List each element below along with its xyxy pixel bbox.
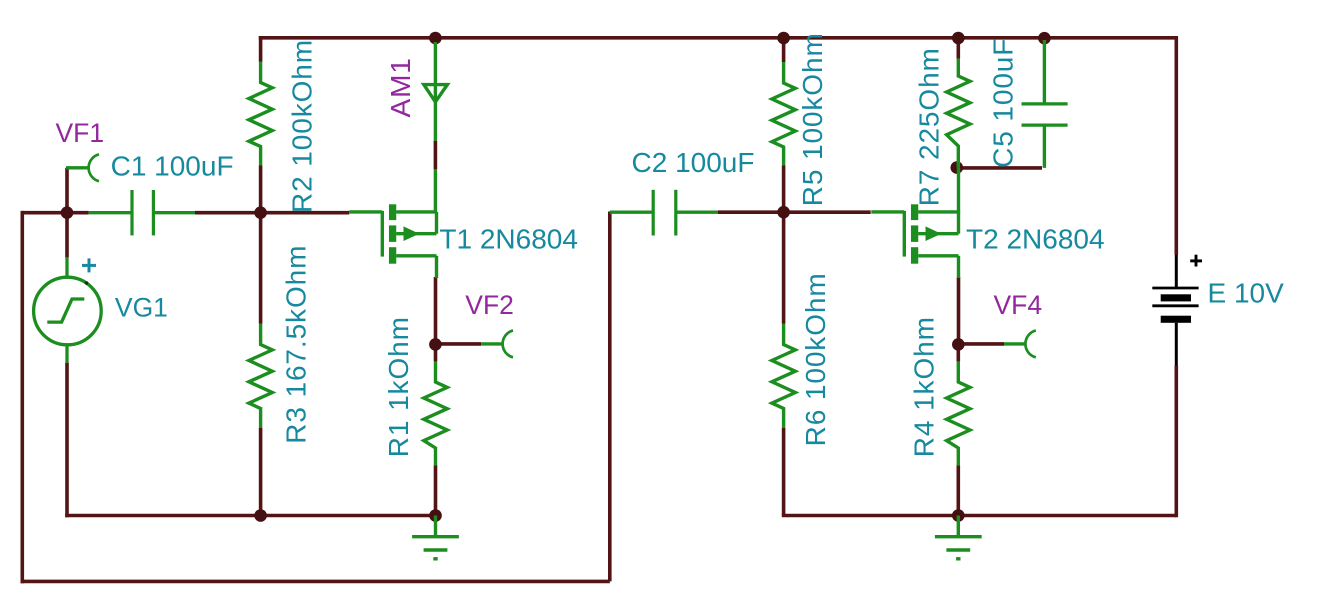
wire VF4 node to R4 top [956,344,960,361]
wire input node to C1 left [22,211,88,215]
wire T1 source to VF2 node [434,277,438,344]
node R7/C5/T2 drain [951,161,964,174]
svg-text:VG1: VG1 [115,293,168,323]
capacitor C2 [610,190,718,236]
wire T2 source to VF4 node [957,277,961,344]
wire R3 top stub [259,213,263,324]
wire R1 bottom to ground node [434,465,438,515]
wire C2 right to T2 gate [718,210,871,214]
node stage2 ground [952,509,965,522]
transistor T2 drain lead [957,168,960,213]
node R7 top rail [952,32,965,45]
node R3 bottom bus [254,509,267,522]
svg-text:T1 2N6804: T1 2N6804 [439,224,578,255]
resistor R3 [249,324,272,428]
wire VF4 probe stub [958,342,1004,346]
wire bottom feedback rail [21,580,610,584]
resistor R5 [772,62,795,166]
wire battery minus to bottom bus [1175,366,1179,518]
svg-text:E 10V: E 10V [1208,278,1285,309]
wire R3 bottom stub [259,428,263,516]
wire riser to C2 left [608,212,612,582]
voltage probe VF4 [1004,330,1036,357]
svg-text:C2 100uF: C2 100uF [632,147,755,178]
resistor R1 [424,362,447,466]
svg-text:VF2: VF2 [465,290,514,320]
svg-text:R6 100kOhm: R6 100kOhm [800,272,831,446]
node stage1 ground [429,509,442,522]
svg-text:T2 2N6804: T2 2N6804 [966,223,1105,254]
wire VG1 top stub [65,213,69,258]
battery plus sign [1190,255,1202,267]
node T2 gate bias [777,206,790,219]
resistor R7 [947,59,970,168]
wire R7 top stub [956,38,960,59]
VG1 plus sign [82,258,96,272]
wire R2 top stub [259,36,263,62]
wire VF2 node to R1 top [434,344,438,361]
ground stage2 [935,516,982,559]
capacitor C1 [89,190,195,235]
wire VG1 bottom stub [65,363,69,518]
svg-text:C1 100uF: C1 100uF [111,150,234,181]
wire top supply rail [259,36,1177,40]
node T1 gate bias [254,206,267,219]
wire VF2 probe stub [435,342,481,346]
svg-text:VF1: VF1 [56,118,105,148]
wire left feedback rail [20,211,24,583]
voltage probe VF1 [66,154,99,181]
ammeter AM1 [424,42,448,214]
wire R7 node to C5 bottom [958,166,1042,170]
voltage generator VG1 [34,257,102,362]
resistor R4 [947,362,970,466]
svg-text:R7 225Ohm: R7 225Ohm [914,47,945,206]
wire AM1 to T1 drain [434,141,438,169]
node input / VF1 [61,206,74,219]
capacitor C5 [1022,40,1068,168]
transistor T2 2N6804 [871,204,958,278]
node AM1 top rail [429,32,442,45]
ground stage1 [412,516,459,559]
svg-text:R1 1kOhm: R1 1kOhm [383,316,414,457]
VG1 positive pin dot [85,281,89,285]
svg-text:R5 100kOhm: R5 100kOhm [797,32,828,206]
resistor R6 [772,324,795,428]
node VF2 [429,338,442,351]
wire R5 bottom to gate node 2 [782,166,786,213]
svg-text:VF4: VF4 [994,290,1043,320]
svg-text:R2 100kOhm: R2 100kOhm [287,39,318,213]
svg-text:R3 167.5kOhm: R3 167.5kOhm [280,245,311,444]
wire stage2 bottom bus [782,514,1177,518]
svg-text:R4 1kOhm: R4 1kOhm [908,316,939,457]
wire R6 bottom stub [782,428,786,516]
node C5 top rail [1038,32,1051,45]
node VF4 [952,338,965,351]
wire R2 bottom to gate node [259,166,263,213]
resistor R2 [249,62,272,166]
wire R4 bottom to ground node [956,465,960,515]
battery E 10V [1152,255,1198,366]
node R5 top rail [777,32,790,45]
wire stage1 bottom bus [65,514,435,518]
wire top rail to battery plus [1175,36,1179,255]
transistor T1 2N6804 [349,204,436,278]
wire R6 top stub [782,212,786,323]
svg-text:AM1: AM1 [385,57,416,117]
voltage probe VF2 [481,330,513,357]
svg-text:C5 100uF: C5 100uF [987,38,1018,168]
wire VF1 probe stub vertical [65,168,69,213]
wire C1 right to T1 gate [195,211,349,215]
wire R5 top stub [782,38,786,62]
